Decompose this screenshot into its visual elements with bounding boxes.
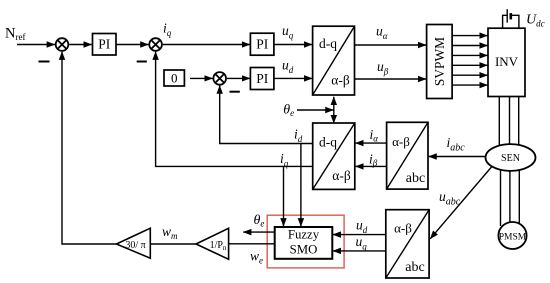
node ialpha label: [370, 127, 379, 144]
red highlight box around Fuzzy SMO: [267, 215, 344, 268]
wires INV to SEN three phase: [499, 97, 518, 148]
svg-text:PI: PI: [98, 37, 111, 52]
node uabc label: [439, 189, 461, 208]
wire zero block to J3: [190, 77, 213, 79]
block Fuzzy SMO observer: [275, 227, 333, 259]
wire thetae into transform blocks: [297, 109, 333, 111]
svg-text:α-β: α-β: [394, 221, 412, 236]
wires SEN to PMSM three phase: [501, 168, 520, 226]
node ualpha label: [376, 23, 388, 41]
node id label: [294, 126, 303, 144]
dc link battery symbol: [503, 9, 519, 28]
node ud label lower: [356, 217, 368, 235]
node thetae label lower: [254, 213, 265, 229]
wire speed feedback from 30/pi to J1: [62, 52, 116, 244]
block PI3 d-axis current regulator: [250, 68, 274, 90]
wire ubeta to SVPWM: [355, 78, 427, 80]
wire thetae output arrow from Fuzzy SMO: [243, 231, 275, 233]
wire thetae vertical double arrow up to dq1: [333, 97, 335, 110]
wire PI2 to dq1: [274, 44, 312, 46]
wire 1/Pn to 30/pi: [150, 243, 196, 245]
node Udc label: [526, 13, 545, 29]
svg-text:α-β: α-β: [331, 73, 350, 88]
block dq2 Park transform alpha-beta to d-q: [313, 123, 355, 189]
svg-text:d-q: d-q: [319, 36, 337, 51]
node ud label: [282, 57, 294, 75]
svg-text:0: 0: [171, 71, 178, 86]
svg-text:abc: abc: [406, 171, 425, 186]
block SVPWM: [427, 25, 453, 99]
wire J3 to PI3: [227, 77, 250, 79]
svg-text:Fuzzy: Fuzzy: [288, 228, 320, 242]
block abc2 Clarke transform for voltages: [386, 210, 429, 278]
wire PI3 to dq1: [274, 77, 312, 79]
node iq feedback label: [280, 151, 289, 169]
block abc1 Clarke transform abc to alpha-beta: [387, 122, 428, 189]
wire uq input from abc2 to Fuzzy SMO: [333, 250, 386, 252]
svg-text:SMO: SMO: [290, 243, 318, 257]
minus sign at J1: [39, 61, 50, 63]
summing junction J3: [213, 72, 226, 85]
block PI1 speed regulator: [93, 34, 117, 56]
wire iabc from SEN to abc1: [429, 156, 492, 158]
block dq1 inverse Park transform d-q to alpha-beta: [313, 26, 355, 95]
svg-text:PMSM: PMSM: [499, 232, 527, 242]
block zero d-current reference: [164, 70, 184, 86]
summing junction J1: [56, 38, 69, 51]
svg-text:d-q: d-q: [319, 135, 337, 150]
node thetae label upper: [283, 102, 294, 118]
wire PI1 to J2: [116, 44, 148, 46]
block INV inverter: [488, 28, 525, 96]
minus sign at J3: [230, 91, 240, 93]
svg-text:PI: PI: [256, 37, 269, 52]
node ubeta label: [377, 59, 389, 77]
wire J1 to PI1: [69, 44, 91, 46]
summing junction J2: [149, 38, 162, 51]
svg-text:PI: PI: [256, 71, 269, 86]
node Nref label: [5, 26, 25, 42]
wire uabc diagonal from SEN to abc2: [430, 161, 497, 239]
motor PMSM: [498, 222, 526, 249]
node uq label: [282, 23, 294, 41]
node iq reference label: [163, 21, 172, 39]
node iabc label: [447, 135, 466, 154]
node we label: [250, 249, 263, 266]
svg-text:α-β: α-β: [392, 134, 410, 149]
wire iq branch down into Fuzzy SMO: [283, 166, 285, 226]
wire ud input from abc2 to Fuzzy SMO: [333, 234, 386, 236]
minus sign at J2: [137, 61, 147, 63]
node ibeta label: [369, 151, 378, 168]
svg-text:α-β: α-β: [332, 168, 351, 183]
wire ualpha to SVPWM: [355, 44, 427, 46]
gain block 1/Pn: [196, 228, 229, 259]
node wm label: [162, 224, 178, 241]
wire id feedback from dq2 to J3: [220, 86, 313, 144]
wire ialpha abc1 to dq2: [355, 142, 386, 144]
wire J2 to PI2: [163, 44, 250, 46]
wire id branch down into Fuzzy SMO: [300, 144, 302, 227]
wire we from Fuzzy SMO to 1/Pn: [228, 243, 274, 245]
block PI2 q-axis current regulator: [250, 33, 274, 55]
svg-text:30/ π: 30/ π: [125, 240, 145, 251]
wire Nref to sum junction J1: [17, 44, 55, 46]
svg-text:SVPWM: SVPWM: [432, 37, 447, 86]
wire iq feedback from dq2 to J2: [156, 52, 313, 167]
wire ibeta abc1 to dq2: [355, 165, 386, 167]
node uq label lower: [356, 234, 368, 252]
svg-text:INV: INV: [495, 54, 519, 69]
svg-text:SEN: SEN: [501, 153, 520, 164]
svg-text:abc: abc: [405, 260, 424, 275]
wire thetae vertical double arrow down to dq2: [333, 110, 335, 123]
sensor SEN: [486, 144, 536, 171]
gain block 30/pi: [116, 228, 150, 258]
wires SVPWM to INV six gate signals: [452, 36, 488, 86]
